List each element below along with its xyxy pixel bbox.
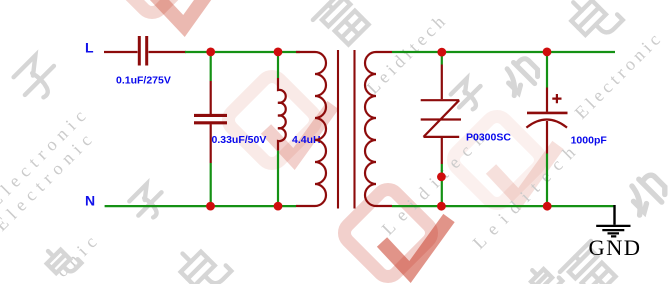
protector RV1 P0300SC body	[421, 100, 461, 137]
wire C1 right lead (dark red)	[149, 51, 187, 53]
wire RV column upper green	[441, 52, 443, 65]
wire bottom rail right (green)	[392, 205, 614, 207]
svg-text:L: L	[85, 40, 94, 56]
svg-text:Electronic: Electronic	[571, 27, 667, 123]
watermark logo bottom-center	[340, 185, 449, 281]
ground symbol	[596, 226, 630, 237]
svg-text:1000pF: 1000pF	[571, 135, 608, 147]
watermark char dian gray top-right	[563, 0, 623, 46]
junction mid RV	[437, 172, 446, 181]
inductor L1 4.4uH	[278, 78, 286, 151]
wire L1 column lower green	[277, 151, 279, 207]
wire C3 column upper green	[546, 52, 548, 88]
svg-text:N: N	[85, 193, 95, 209]
watermark char dian gray bottom-middle	[172, 238, 231, 284]
watermark char lei gray top-middle	[313, 0, 374, 50]
svg-text:0.1uF/275V: 0.1uF/275V	[116, 75, 171, 87]
svg-text:P0300SC: P0300SC	[466, 132, 511, 144]
watermark char mao gray right	[497, 54, 543, 100]
junction top C2	[206, 48, 215, 57]
watermark char mao gray bottom-right	[621, 170, 671, 220]
wire C2 lower pin (dark red)	[210, 124, 212, 163]
junction bottom C3	[543, 202, 552, 211]
capacitor C1 0.1uF/275V plates	[139, 36, 146, 66]
wire C3 column lower green	[546, 154, 548, 207]
junction bottom RV	[437, 202, 446, 211]
wire C2 upper pin (dark red)	[210, 81, 212, 114]
watermark char dian gray bottom-right-small	[526, 261, 562, 284]
wire RV column lower green	[441, 164, 443, 206]
capacitor C3 curved plate	[526, 120, 567, 128]
watermark char lei gray bottom-right-large	[560, 241, 621, 284]
svg-text:0.33uF/50V: 0.33uF/50V	[212, 134, 267, 146]
junction bottom L1	[274, 202, 283, 211]
svg-text:GND: GND	[589, 235, 642, 260]
wire bottom rail left (green)	[105, 205, 296, 207]
watermark char zi gray center	[448, 75, 488, 115]
wire L lead left of C1 (dark red)	[104, 51, 138, 53]
capacitor C3 1000pF plus sign	[552, 94, 561, 103]
wire C2 column upper green	[210, 52, 212, 81]
wire RV lower pin (dark red)	[441, 138, 443, 164]
wire top rail left (green)	[185, 51, 300, 53]
junction top RV	[437, 48, 446, 57]
capacitor C2 0.33uF/50V plates	[194, 115, 227, 122]
junction bottom C2	[206, 202, 215, 211]
wire C2 column lower green	[210, 163, 212, 206]
wire L1 column upper green	[277, 52, 279, 78]
capacitor C3 top plate	[527, 112, 568, 115]
wire top rail right (green)	[392, 51, 615, 53]
wire C3 upper pin (dark red)	[546, 88, 548, 112]
wire GND drop (black)	[613, 205, 615, 225]
watermark char zi gray middle-left	[127, 181, 170, 224]
wire RV upper pin (dark red)	[441, 65, 443, 100]
transformer T1 core	[338, 50, 355, 209]
watermark char dian gray bottom-left	[41, 240, 81, 280]
svg-text:onic: onic	[52, 228, 105, 281]
watermark logo top-center	[104, 0, 224, 26]
transformer T1 primary winding	[296, 52, 326, 206]
watermark logo right faint	[449, 112, 558, 208]
watermark logo center-left	[224, 72, 333, 168]
junction top L1	[274, 48, 283, 57]
wire C3 lower pin (dark red)	[546, 121, 548, 154]
transformer T1 secondary winding	[365, 52, 392, 206]
watermark char zi gray top-left	[10, 51, 64, 105]
junction top C3	[543, 48, 552, 57]
